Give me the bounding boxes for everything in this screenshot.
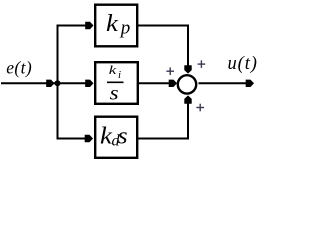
arrowhead: output	[246, 80, 254, 87]
arrowhead: input into junction	[46, 80, 54, 87]
wire: output u(t)	[199, 82, 250, 84]
wire: junction vertical bus	[57, 26, 59, 139]
wire: top branch to Kp	[57, 25, 89, 27]
svg-text:s: s	[110, 82, 119, 104]
svg-text:e(t): e(t)	[6, 58, 32, 78]
label: k_i numerator	[109, 64, 121, 81]
wire: Kd output to summer	[137, 100, 188, 139]
wire: Ki output to summer	[138, 82, 172, 84]
arrowhead: Kp into summer top	[184, 65, 191, 73]
svg-text:i: i	[118, 69, 121, 81]
node: input junction dot	[55, 80, 61, 86]
svg-text:p: p	[119, 18, 131, 39]
label: k_p	[106, 10, 130, 39]
wire: Kp output to summer	[137, 26, 188, 69]
label: k_d s	[100, 122, 128, 150]
fraction bar	[107, 81, 124, 83]
arrowhead: Kd into summer bottom	[184, 95, 191, 103]
block: Kp (proportional)	[95, 5, 137, 47]
arrowhead: into Ki block	[85, 80, 93, 87]
wire: e(t) input line	[1, 82, 90, 84]
block: Kd*s (derivative)	[95, 117, 137, 158]
svg-text:s: s	[118, 123, 128, 149]
sign: plus for Ki input	[166, 67, 174, 75]
sign: plus for Kp input	[198, 60, 206, 68]
arrowhead: into Kp block	[85, 22, 93, 29]
sign: plus for Kd input	[196, 104, 204, 112]
svg-text:k: k	[109, 64, 117, 78]
arrowhead: Ki into summer left	[169, 80, 177, 87]
block: Ki/s (integral)	[95, 62, 138, 104]
svg-text:k: k	[106, 10, 119, 37]
arrowhead: into Kd block	[85, 135, 93, 142]
wire: bottom branch to Kd	[57, 138, 89, 140]
svg-text:u(t): u(t)	[228, 54, 258, 74]
summing junction	[178, 75, 196, 93]
